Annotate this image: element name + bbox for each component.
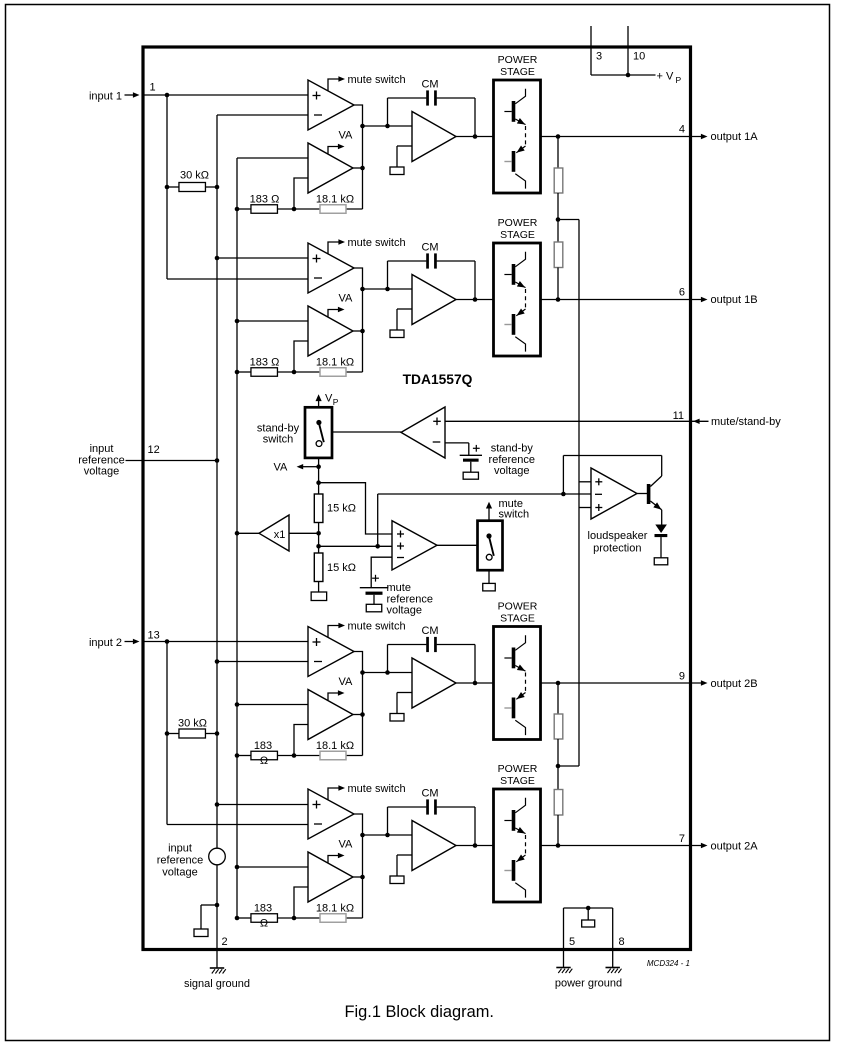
svg-text:CM: CM <box>421 788 438 800</box>
svg-text:183 Ω: 183 Ω <box>250 356 280 368</box>
svg-text:5: 5 <box>569 936 575 948</box>
svg-text:Ω: Ω <box>260 918 268 930</box>
svg-text:CM: CM <box>421 242 438 254</box>
svg-text:18.1 kΩ: 18.1 kΩ <box>316 902 354 914</box>
svg-text:+ V: + V <box>657 70 674 82</box>
svg-text:protection: protection <box>593 542 641 554</box>
svg-text:input 1: input 1 <box>89 90 122 102</box>
svg-text:7: 7 <box>679 833 685 845</box>
svg-text:loudspeaker: loudspeaker <box>588 530 648 542</box>
svg-text:input 2: input 2 <box>89 637 122 649</box>
svg-text:voltage: voltage <box>494 465 529 477</box>
svg-text:2: 2 <box>222 936 228 948</box>
svg-text:x1: x1 <box>274 529 286 541</box>
svg-text:mute switch: mute switch <box>348 620 406 632</box>
svg-text:10: 10 <box>633 51 645 63</box>
svg-text:output 1A: output 1A <box>711 131 759 143</box>
svg-text:mute/stand-by: mute/stand-by <box>711 416 781 428</box>
svg-text:mute switch: mute switch <box>348 783 406 795</box>
svg-text:30 kΩ: 30 kΩ <box>180 170 209 182</box>
svg-text:POWER: POWER <box>498 54 538 66</box>
svg-text:MCD324 - 1: MCD324 - 1 <box>647 959 690 968</box>
svg-text:STAGE: STAGE <box>500 66 535 78</box>
svg-text:Ω: Ω <box>260 755 268 767</box>
svg-text:TDA1557Q: TDA1557Q <box>403 372 473 387</box>
svg-text:mute switch: mute switch <box>348 74 406 86</box>
svg-text:voltage: voltage <box>162 867 197 879</box>
svg-text:13: 13 <box>148 630 160 642</box>
svg-text:CM: CM <box>421 625 438 637</box>
svg-text:CM: CM <box>421 79 438 91</box>
svg-text:9: 9 <box>679 671 685 683</box>
svg-text:voltage: voltage <box>387 605 422 617</box>
svg-text:stand-by: stand-by <box>257 422 300 434</box>
svg-text:VA: VA <box>339 839 354 851</box>
svg-text:12: 12 <box>148 444 160 456</box>
svg-text:POWER: POWER <box>498 763 538 775</box>
svg-text:30 kΩ: 30 kΩ <box>178 718 207 730</box>
svg-text:18.1 kΩ: 18.1 kΩ <box>316 740 354 752</box>
svg-text:switch: switch <box>263 434 294 446</box>
svg-text:15 kΩ: 15 kΩ <box>327 502 356 514</box>
svg-text:reference: reference <box>157 855 203 867</box>
svg-text:output 1B: output 1B <box>711 294 758 306</box>
svg-text:15 kΩ: 15 kΩ <box>327 562 356 574</box>
svg-text:output 2B: output 2B <box>711 678 758 690</box>
svg-text:VA: VA <box>339 130 354 142</box>
svg-text:STAGE: STAGE <box>500 775 535 787</box>
svg-text:3: 3 <box>596 51 602 63</box>
svg-text:VA: VA <box>274 462 289 474</box>
svg-text:183: 183 <box>254 902 272 914</box>
svg-text:switch: switch <box>499 509 530 521</box>
svg-text:reference: reference <box>489 454 535 466</box>
svg-text:input: input <box>168 843 192 855</box>
svg-text:input: input <box>90 443 114 455</box>
svg-text:POWER: POWER <box>498 600 538 612</box>
svg-text:183 Ω: 183 Ω <box>250 193 280 205</box>
svg-text:mute: mute <box>387 582 411 594</box>
svg-text:V: V <box>325 393 333 405</box>
svg-text:1: 1 <box>150 82 156 94</box>
svg-text:signal ground: signal ground <box>184 978 250 990</box>
svg-text:4: 4 <box>679 124 685 136</box>
svg-text:reference: reference <box>78 454 124 466</box>
svg-text:VA: VA <box>339 676 354 688</box>
svg-text:stand-by: stand-by <box>491 443 534 455</box>
svg-text:18.1 kΩ: 18.1 kΩ <box>316 356 354 368</box>
svg-text:P: P <box>333 397 339 407</box>
svg-text:mute switch: mute switch <box>348 237 406 249</box>
svg-text:POWER: POWER <box>498 217 538 229</box>
svg-text:output 2A: output 2A <box>711 841 759 853</box>
svg-text:Fig.1 Block diagram.: Fig.1 Block diagram. <box>345 1003 494 1021</box>
svg-text:11: 11 <box>673 410 684 422</box>
svg-text:VA: VA <box>339 293 354 305</box>
svg-text:183: 183 <box>254 740 272 752</box>
svg-text:power ground: power ground <box>555 978 622 990</box>
svg-text:voltage: voltage <box>84 466 119 478</box>
svg-text:P: P <box>676 75 682 85</box>
svg-text:STAGE: STAGE <box>500 612 535 624</box>
svg-text:18.1 kΩ: 18.1 kΩ <box>316 193 354 205</box>
svg-text:8: 8 <box>619 936 625 948</box>
svg-text:6: 6 <box>679 287 685 299</box>
svg-text:STAGE: STAGE <box>500 229 535 241</box>
svg-text:reference: reference <box>387 593 433 605</box>
